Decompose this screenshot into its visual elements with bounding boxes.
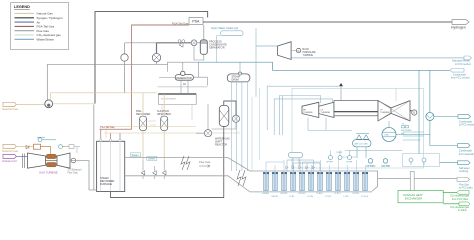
svg-text:CND PMP: CND PMP [382, 166, 391, 168]
svg-text:25: 25 [402, 124, 404, 126]
svg-text:PSA Tail Gas: PSA Tail Gas [100, 126, 115, 129]
svg-text:LP EV1: LP EV1 [353, 193, 359, 195]
svg-text:SEPARATOR: SEPARATOR [209, 46, 225, 50]
svg-text:ECONOMIZER: ECONOMIZER [161, 99, 176, 101]
svg-text:from deaerator: from deaerator [459, 153, 474, 156]
svg-text:BP EV1: BP EV1 [272, 196, 279, 198]
svg-text:Steam: Steam [132, 154, 139, 157]
svg-text:to PCC section: to PCC section [459, 124, 474, 127]
svg-text:PSA Tail Gas: PSA Tail Gas [172, 21, 189, 25]
svg-text:from PCC plant: from PCC plant [452, 198, 469, 201]
svg-text:LEGEND: LEGEND [14, 5, 30, 9]
svg-text:TURBINE: TURBINE [380, 112, 390, 114]
svg-text:LP BFP: LP BFP [346, 162, 353, 164]
svg-text:FURNACE: FURNACE [100, 183, 112, 186]
svg-text:Ambient Air: Ambient Air [2, 159, 17, 163]
svg-text:Open Water Intake (pt): Open Water Intake (pt) [211, 26, 238, 30]
svg-text:Natural Gas: Natural Gas [2, 107, 19, 111]
svg-text:IP EC1: IP EC1 [335, 193, 341, 195]
svg-text:HP EV2: HP EV2 [281, 193, 288, 195]
svg-text:IP E1: IP E1 [290, 196, 295, 198]
svg-text:from FCC section: from FCC section [451, 77, 470, 80]
svg-text:GAS TURBINE: GAS TURBINE [39, 171, 58, 175]
svg-text:(cooling): (cooling) [459, 170, 468, 173]
svg-text:LP EC0: LP EC0 [362, 196, 368, 198]
svg-text:(pt): (pt) [401, 132, 405, 135]
svg-text:to Stack: to Stack [458, 209, 467, 212]
svg-text:Natural Gas: Natural Gas [2, 149, 19, 153]
svg-text:PSA: PSA [192, 20, 200, 24]
svg-text:CWC: CWC [384, 135, 390, 137]
svg-text:HP EC2: HP EC2 [299, 193, 306, 195]
svg-text:LP SH: LP SH [308, 196, 314, 198]
svg-text:REACTOR: REACTOR [215, 144, 227, 147]
svg-text:SW PUMP: SW PUMP [401, 130, 412, 132]
svg-text:LP EV: LP EV [326, 196, 332, 198]
svg-text:EXCHANGER: EXCHANGER [405, 197, 422, 201]
svg-text:Flue Gas: Flue Gas [68, 172, 79, 175]
svg-text:DRUM: DRUM [232, 78, 239, 81]
svg-text:Syngas / Hydrogen: Syngas / Hydrogen [37, 16, 63, 20]
svg-text:AIR CLD CND: AIR CLD CND [355, 143, 369, 146]
svg-text:Hydrogen: Hydrogen [451, 25, 466, 29]
svg-text:DEAERATOR: DEAERATOR [176, 77, 192, 80]
svg-text:GAS/GAS HEAT: GAS/GAS HEAT [403, 193, 423, 197]
svg-text:HP: HP [303, 110, 307, 112]
svg-text:TURBINE: TURBINE [321, 112, 331, 114]
svg-text:Water/Steam: Water/Steam [37, 38, 55, 42]
svg-text:TURBINE: TURBINE [303, 112, 313, 114]
svg-text:HPSH4: HPSH4 [263, 193, 269, 195]
svg-text:to PCC plant: to PCC plant [459, 187, 473, 190]
svg-text:LT EC: LT EC [344, 196, 350, 198]
svg-text:TURBINE: TURBINE [303, 54, 314, 57]
svg-text:Flue Gas: Flue Gas [199, 160, 211, 164]
svg-text:Natural Gas: Natural Gas [37, 12, 54, 16]
svg-text:G: G [298, 49, 300, 53]
svg-text:CW PMP: CW PMP [367, 166, 375, 168]
svg-text:to FCC section: to FCC section [455, 63, 471, 66]
svg-text:IP BFP: IP BFP [337, 152, 343, 154]
svg-text:G: G [413, 111, 415, 115]
svg-text:HP BFP: HP BFP [327, 162, 334, 164]
svg-text:IP EV2: IP EV2 [317, 193, 323, 195]
